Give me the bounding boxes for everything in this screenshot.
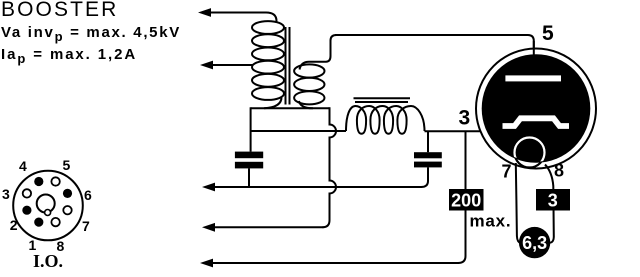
tube V1 inner disc bbox=[482, 54, 591, 163]
transformer T1 right winding (3 turns) bbox=[294, 64, 324, 108]
pin 7 lead bbox=[516, 163, 521, 243]
wire from right winding top to anode line bbox=[300, 35, 337, 70]
svg-text:3: 3 bbox=[2, 186, 10, 202]
title BOOSTER bbox=[1, 0, 118, 22]
capacitor C2 bottom stem to arrow line bbox=[421, 167, 428, 187]
terminal arrow A5 line (cathode return) bbox=[200, 259, 459, 268]
svg-text:6: 6 bbox=[84, 187, 92, 203]
rating label Va inv p = max. 4,5kV bbox=[1, 24, 181, 44]
socket pin 6 (filled) bbox=[63, 189, 72, 198]
value box 3 (on pin 8 lead) bbox=[536, 189, 570, 211]
socket pin 8 (open) bbox=[51, 218, 59, 226]
tube V1 filament loop (black part outside disc) bbox=[515, 138, 545, 168]
socket pin 7 (open) bbox=[63, 206, 71, 214]
svg-text:3: 3 bbox=[459, 107, 471, 130]
anode supply wire (top horizontal to pin 5) bbox=[335, 35, 534, 78]
socket pin 5 (open) bbox=[51, 177, 59, 185]
tube V1 filament loop (white part inside disc) bbox=[515, 138, 545, 168]
svg-text:3: 3 bbox=[548, 191, 558, 211]
socket diagram outline bbox=[13, 171, 83, 241]
svg-text:max.: max. bbox=[470, 212, 512, 231]
capacitor C2 top stem bbox=[427, 131, 429, 152]
socket pin 1 (filled) bbox=[34, 218, 43, 227]
svg-text:5: 5 bbox=[542, 22, 554, 45]
terminal arrow A4 line bbox=[202, 223, 324, 232]
svg-text:5: 5 bbox=[63, 157, 71, 173]
svg-text:8: 8 bbox=[554, 161, 564, 181]
capacitor C1 top stem bbox=[250, 107, 252, 151]
rating label Ia p = max. 1,2A bbox=[1, 46, 137, 66]
bottom rail of transformer windings bbox=[251, 107, 330, 109]
pin 8 lead bbox=[545, 165, 554, 243]
capacitor C2 plates bbox=[414, 152, 442, 167]
socket pin 3 (open) bbox=[23, 189, 31, 197]
choke L1 winding bbox=[346, 106, 425, 134]
socket pin 2 (filled) bbox=[22, 206, 31, 215]
terminal arrow A2 (to transformer primary tap) bbox=[200, 61, 253, 70]
socket center spigot hole bbox=[37, 195, 55, 213]
tube V1 envelope (outer circle) bbox=[476, 49, 596, 169]
vertical wire from rail down to A4 with hops bbox=[323, 107, 337, 227]
socket pin 4 (filled) bbox=[34, 177, 43, 186]
right winding bottom connection to rail bbox=[299, 101, 313, 108]
socket pin labels bbox=[2, 157, 92, 254]
wire A1 to left winding top bbox=[209, 13, 277, 24]
capacitor C1 bottom stem bbox=[248, 168, 250, 187]
tube V1 anode lead from pin 5 bbox=[533, 41, 535, 78]
capacitor C1 plates bbox=[235, 152, 263, 169]
choke L1 core lines bbox=[354, 98, 411, 102]
svg-text:2: 2 bbox=[10, 217, 18, 233]
svg-text:4: 4 bbox=[19, 158, 27, 174]
svg-text:I.O.: I.O. bbox=[33, 251, 63, 271]
terminal arrow A3 line (boost rail) bbox=[202, 183, 422, 192]
terminal arrow A1 (to transformer primary top) bbox=[198, 8, 277, 23]
wire node rail to choke (y131) bbox=[251, 130, 346, 132]
left winding bottom connection to rail bbox=[264, 97, 282, 109]
svg-text:7: 7 bbox=[502, 162, 512, 182]
socket key notch bbox=[45, 210, 51, 216]
wire A2 to winding tap bbox=[211, 64, 253, 66]
transformer T1 core bbox=[286, 27, 290, 105]
tube V1 anode bar bbox=[505, 75, 561, 81]
vertical wire node3 down to bottom line bbox=[458, 131, 466, 263]
heater voltage disc 6,3 bbox=[519, 227, 550, 258]
svg-text:200: 200 bbox=[451, 191, 481, 211]
wire choke to tube cathode (node 3 line) bbox=[425, 130, 504, 132]
value box 200 bbox=[449, 189, 484, 211]
svg-text:6,3: 6,3 bbox=[522, 233, 547, 253]
svg-text:7: 7 bbox=[82, 218, 90, 234]
tube V1 cathode hat bbox=[503, 118, 570, 126]
transformer T1 left winding (6 turns) bbox=[252, 21, 284, 108]
